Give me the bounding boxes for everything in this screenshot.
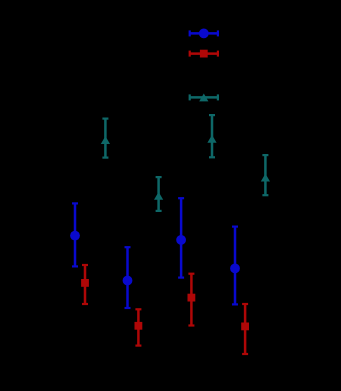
blue series point 3 marker (176, 235, 186, 245)
teal series point 1 error bar (102, 119, 108, 158)
blue series point 4 error bar (232, 227, 238, 305)
blue series point 1 marker (70, 231, 80, 241)
teal series point 3 marker (207, 135, 216, 143)
blue series point 4 marker (230, 264, 240, 274)
red series point 1 marker (81, 279, 89, 287)
red series point 4 marker (241, 323, 249, 331)
red series point 2 error bar (135, 309, 141, 345)
red series point 4 error bar (242, 304, 248, 354)
blue series point 3 error bar (178, 198, 184, 277)
red series point 1 error bar (82, 265, 88, 304)
legend blue entry error bar (190, 30, 218, 36)
teal series point 3 error bar (209, 115, 215, 157)
legend blue entry marker (199, 29, 209, 39)
legend teal entry error bar (190, 94, 218, 100)
blue series point 2 error bar (125, 247, 131, 308)
red series point 3 error bar (188, 274, 194, 326)
legend teal entry marker (199, 93, 208, 101)
teal series point 2 error bar (156, 177, 162, 211)
legend red entry marker (200, 50, 208, 58)
blue series point 1 error bar (72, 203, 78, 266)
teal series point 2 marker (154, 192, 163, 200)
legend red entry error bar (190, 51, 218, 57)
red series point 3 marker (188, 294, 196, 302)
red series point 2 marker (135, 322, 143, 330)
teal series point 1 marker (101, 136, 110, 144)
teal series point 4 marker (261, 174, 270, 182)
blue series point 2 marker (123, 276, 133, 286)
teal series point 4 error bar (262, 155, 268, 195)
